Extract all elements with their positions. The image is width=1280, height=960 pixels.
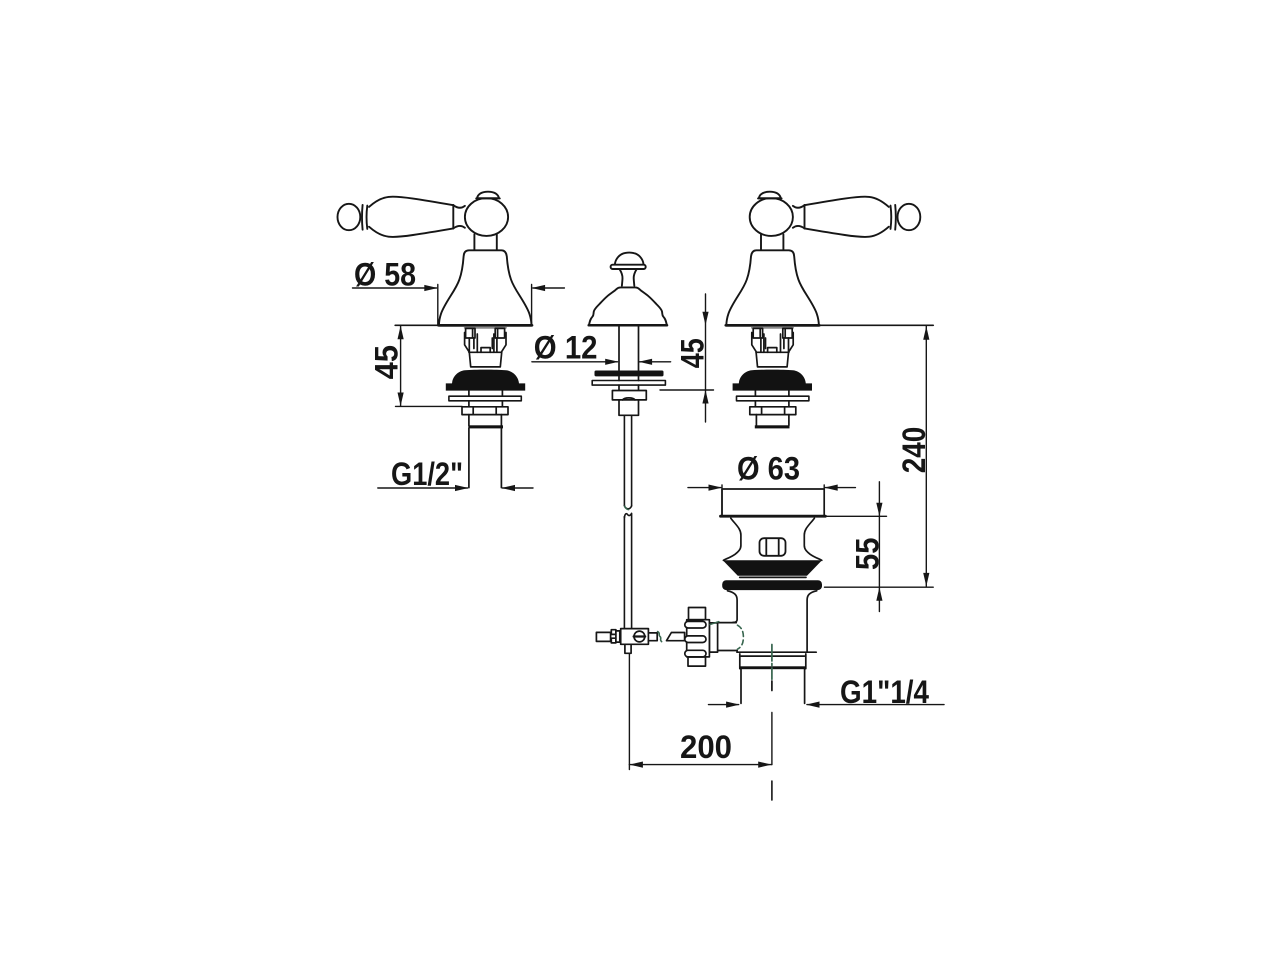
horizontal rod left stub: [596, 632, 610, 641]
clevis screw: [634, 631, 645, 642]
knob waist: [620, 269, 623, 286]
left pillar tap: [338, 192, 533, 429]
cartridge top strip: [465, 327, 506, 329]
rod break squiggle (green): [658, 632, 662, 642]
svg-text:45: 45: [674, 338, 710, 368]
dimension Ø12 (lift rod diameter): [532, 361, 671, 363]
right pillar tap (mirrored copy): [726, 192, 921, 429]
notched collar: [611, 630, 616, 635]
rod below locknut: [619, 400, 639, 415]
clevis block: [621, 629, 649, 645]
knob brim disc: [611, 265, 646, 269]
dimension 45 (left tap, escutcheon base to locknut): [396, 326, 463, 407]
dimension 45 (right tap, base line to locknut): [660, 294, 714, 422]
hidden port bore (green arc): [738, 625, 744, 649]
svg-text:55: 55: [849, 538, 885, 571]
dimension 55 (waste flange to body step): [826, 482, 887, 612]
svg-text:Ø 12: Ø 12: [534, 330, 598, 366]
rod break mark: [624, 506, 631, 509]
dimension 200 (rod to waste centre distance): [629, 654, 771, 770]
dimension 240 (base line to waste body step): [825, 326, 934, 587]
waste body bottom / outlet thread: [740, 654, 806, 669]
centreline of waste (dash-dot): [771, 645, 773, 680]
stem between ball and bonnet: [474, 234, 496, 250]
thin pull rod lower: [624, 514, 631, 628]
green hidden-edge tick at valve collar: [710, 622, 719, 625]
svg-text:G1/2": G1/2": [391, 456, 463, 492]
locknut: [462, 407, 508, 415]
left tap inlet tail G1/2: [469, 428, 502, 487]
thread relief band: [468, 425, 503, 428]
pivot cap: [477, 192, 499, 199]
rod washer: [592, 381, 665, 386]
thin pull rod upper: [624, 415, 631, 506]
knurled valve nut: [685, 608, 710, 667]
side valve port: [709, 623, 737, 653]
pull rod clevis linkage: [596, 629, 684, 654]
horizontal rod right piece: [648, 633, 657, 641]
handle pivot ball: [465, 198, 508, 236]
waste body: [728, 591, 817, 652]
threaded shank top: [469, 415, 502, 426]
svg-text:Ø 63: Ø 63: [737, 451, 800, 487]
lift rod upper section: [619, 326, 639, 370]
dimension Ø63 (waste flange diameter): [688, 485, 855, 517]
lift knob rosette: [589, 287, 667, 325]
dimension G1 1/4 (waste outlet thread): [709, 704, 945, 706]
lever handle: [338, 197, 465, 237]
pop-up waste flange: [721, 489, 826, 516]
outlet tail pipe: [741, 669, 805, 703]
rubber seal cone (black): [723, 560, 822, 576]
seal seat line: [740, 576, 806, 578]
waste neck: [723, 518, 741, 560]
plug lift slot: [760, 538, 786, 556]
svg-text:G1"1/4: G1"1/4: [840, 674, 929, 710]
black bonnet seal dome: [446, 370, 525, 391]
svg-text:Ø 58: Ø 58: [354, 257, 416, 293]
washer: [449, 396, 521, 401]
bell escutcheon: [439, 250, 532, 325]
rod stub below clevis: [625, 644, 631, 653]
rod black seal band: [595, 371, 664, 377]
base reference line under taps and knob: [395, 324, 933, 326]
lift rod knob dome: [611, 253, 646, 286]
cartridge clip: [465, 328, 506, 367]
svg-text:45: 45: [368, 345, 404, 379]
dimension G1/2 (left tap inlet thread): [378, 487, 533, 489]
bevelled rod end into valve: [667, 633, 685, 641]
svg-text:240: 240: [896, 427, 932, 474]
black gasket ring: [722, 580, 822, 590]
dimension Ø58 (left tap escutcheon diameter): [353, 285, 565, 325]
svg-text:200: 200: [680, 729, 732, 765]
rod locknut: [612, 391, 646, 400]
